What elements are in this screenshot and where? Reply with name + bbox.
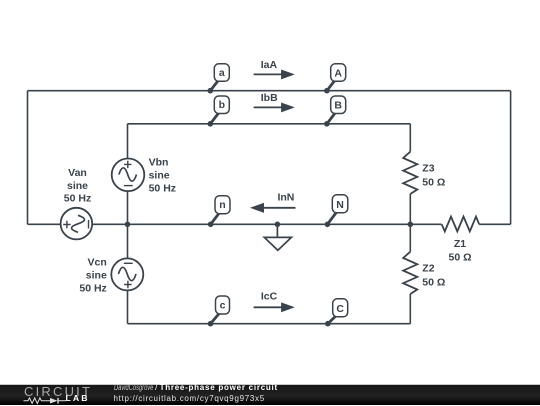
wire left rail <box>27 91 29 225</box>
wire Vcn to c-row <box>127 290 129 323</box>
logo LAB <box>66 394 90 403</box>
svg-text:Z2: Z2 <box>422 262 434 274</box>
svg-text:IcC: IcC <box>261 290 278 302</box>
svg-text:C: C <box>336 303 344 315</box>
svg-text:50 Ω: 50 Ω <box>422 277 445 289</box>
wire b-row (b to B) <box>128 123 411 125</box>
svg-text:Z1: Z1 <box>454 238 466 250</box>
wire Z3 rail top <box>409 124 411 152</box>
current arrow IbB <box>254 92 295 112</box>
svg-text:50 Ω: 50 Ω <box>448 251 471 263</box>
label Vcn sine 50 Hz <box>79 257 107 295</box>
node b <box>208 96 230 127</box>
node B <box>324 96 346 127</box>
label Z2 50 ohm <box>422 262 445 288</box>
footer bar <box>0 384 540 405</box>
credit line 2 <box>114 395 265 403</box>
node N <box>325 195 348 227</box>
svg-text:sine: sine <box>149 169 170 181</box>
ground <box>264 224 291 250</box>
voltage source V2 Vbn <box>112 159 145 192</box>
svg-text:IbB: IbB <box>261 92 278 104</box>
node A <box>324 64 346 94</box>
wire center rail top (b-row to Vbn) <box>127 124 129 159</box>
current arrow IaA <box>254 59 295 79</box>
node n <box>208 196 230 227</box>
wire Z3 to junction <box>409 194 411 252</box>
resistor Z1 <box>442 217 480 232</box>
node a <box>208 64 230 94</box>
svg-text:50 Hz: 50 Hz <box>79 283 106 295</box>
current arrow InN <box>250 192 296 213</box>
label Z3 50 ohm <box>422 162 445 188</box>
svg-text:N: N <box>336 199 344 211</box>
svg-text:IaA: IaA <box>261 59 278 71</box>
svg-text:sine: sine <box>86 269 107 281</box>
resistor Z2 <box>403 252 417 294</box>
label Vbn sine 50 Hz <box>149 157 176 195</box>
svg-text:Van: Van <box>68 167 87 179</box>
node c <box>208 296 230 327</box>
svg-text:Vbn: Vbn <box>149 157 169 169</box>
svg-text:A: A <box>334 68 342 80</box>
wire n-row main segment <box>92 223 442 225</box>
svg-text:Vcn: Vcn <box>88 257 107 269</box>
svg-text:50 Hz: 50 Hz <box>64 192 91 204</box>
credit line 1 <box>114 384 278 392</box>
junction at ground <box>275 222 281 228</box>
svg-text:c: c <box>220 300 226 312</box>
resistor Z3 <box>403 152 417 194</box>
junction at Z1/Z2/Z3 <box>408 222 414 228</box>
svg-text:a: a <box>219 67 225 79</box>
wire c-row (c to C) <box>128 323 411 325</box>
svg-text:Z3: Z3 <box>422 162 434 174</box>
svg-text:sine: sine <box>67 180 88 192</box>
svg-text:50 Ω: 50 Ω <box>422 177 445 189</box>
node C <box>325 299 348 327</box>
wire n-row left segment <box>28 223 61 225</box>
wire Z2 to c-row <box>409 294 411 324</box>
wire Vbn to junction <box>127 191 129 258</box>
voltage source V1 Van <box>61 208 93 240</box>
svg-text:50 Hz: 50 Hz <box>149 183 176 195</box>
logo CIRCUIT <box>24 385 92 398</box>
wire a-row (a to A) <box>28 90 511 92</box>
svg-text:n: n <box>219 199 225 211</box>
logo wire-resistor-diode symbol <box>23 396 69 406</box>
wire n-row right segment <box>479 223 510 225</box>
junction at Van/Vbn/Vcn common <box>125 222 131 228</box>
current arrow IcC <box>254 290 295 312</box>
svg-text:InN: InN <box>277 192 294 204</box>
label Van sine 50 Hz <box>64 167 91 204</box>
label Z1 50 ohm <box>448 238 471 264</box>
wire right rail <box>510 91 512 225</box>
svg-text:B: B <box>334 100 342 112</box>
svg-text:b: b <box>219 99 225 111</box>
voltage source V3 Vcn <box>111 258 143 290</box>
